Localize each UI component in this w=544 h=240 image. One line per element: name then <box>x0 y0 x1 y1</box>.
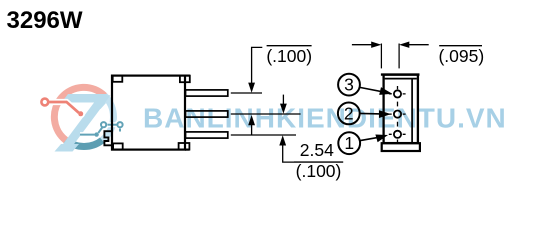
front view inner right line <box>411 79 413 142</box>
svg-text:(.100): (.100) <box>266 46 312 66</box>
extension line pin1 <box>231 92 262 94</box>
dim B tail top <box>282 95 284 105</box>
dim A overline <box>267 45 312 47</box>
dim A arrow down <box>248 83 255 93</box>
fraction bar <box>294 161 343 163</box>
front view top cap line <box>381 73 420 75</box>
teal circuit trace <box>108 124 117 126</box>
pin 2 <box>186 111 228 117</box>
extension line pin3 <box>231 134 296 136</box>
terminal 1 <box>394 131 401 138</box>
top-right tab <box>180 76 190 83</box>
white casing teal trace <box>80 125 120 135</box>
teal circuit dot <box>94 132 98 136</box>
ring pink arc <box>54 87 104 140</box>
dim B arrow up <box>279 135 286 145</box>
callout leader 2 <box>360 112 381 115</box>
teal circuit node 1 <box>101 122 106 127</box>
Z slit stroke <box>96 103 107 110</box>
ring teal arc <box>66 140 102 146</box>
terminal 3 <box>394 90 401 97</box>
screw boss <box>104 131 112 145</box>
dim B arrow down <box>280 104 287 114</box>
terminal 2 <box>394 111 401 118</box>
extension line right <box>398 44 400 69</box>
svg-text:3: 3 <box>344 75 354 95</box>
extension line left <box>380 44 382 69</box>
watermark logo <box>38 87 125 151</box>
top-left tab <box>113 76 123 82</box>
svg-text:1: 1 <box>344 133 354 153</box>
dim A bracket <box>252 47 263 83</box>
Z bottom bar <box>55 144 80 152</box>
bottom-right tab <box>179 143 190 150</box>
teal circuit trace 2 <box>80 128 120 135</box>
bottom-left tab <box>113 143 123 149</box>
callout circle 2 <box>338 103 360 125</box>
svg-text:2: 2 <box>344 103 354 123</box>
pink circuit trace <box>49 102 79 113</box>
dim A arrow up <box>248 115 255 125</box>
Z diagonal <box>58 95 111 151</box>
bottom edge extension <box>185 149 190 151</box>
front top dim right arrow <box>371 42 381 48</box>
pink circuit dot <box>78 111 83 116</box>
extension line pin2 <box>231 113 301 115</box>
ring blue arc <box>102 96 113 140</box>
front top dim left arrow <box>399 42 409 48</box>
white casing pink trace <box>49 102 79 113</box>
svg-text:2.54: 2.54 <box>300 140 334 160</box>
front view body <box>384 75 418 144</box>
front view inner top line <box>385 78 417 80</box>
callout leader 3 <box>360 87 384 92</box>
top edge extension <box>185 74 190 76</box>
front top dim left line <box>352 44 373 46</box>
callout leader 1 <box>360 137 379 140</box>
pink circuit node <box>41 99 48 106</box>
svg-text:(.100): (.100) <box>296 161 342 181</box>
teal circuit node 2 <box>117 122 122 127</box>
front top dim right line <box>409 44 429 46</box>
svg-text:(.095): (.095) <box>438 46 484 66</box>
centerline dashes <box>389 86 406 143</box>
dim A tail <box>251 125 253 135</box>
pin 1 <box>186 90 228 96</box>
side view body <box>112 76 185 150</box>
pin 3 <box>186 132 228 138</box>
front view flange <box>382 143 420 151</box>
svg-text:3296W: 3296W <box>7 7 83 34</box>
dim B tail bottom <box>283 145 294 162</box>
callout circle 3 <box>338 74 360 96</box>
dim C overline <box>439 45 482 47</box>
callout circle 1 <box>338 132 360 154</box>
Z top bar <box>62 94 108 103</box>
